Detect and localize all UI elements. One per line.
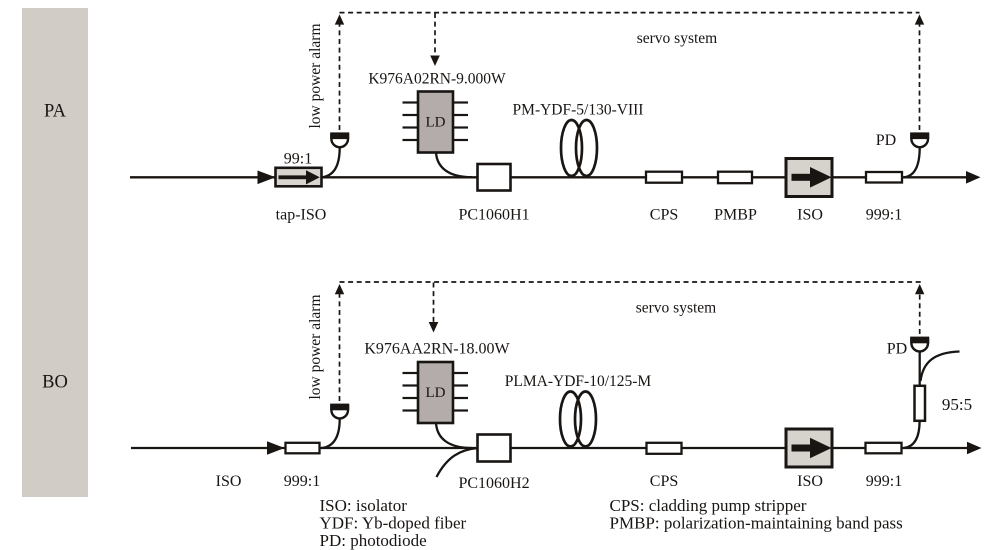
svg-text:99:1: 99:1 — [284, 151, 312, 168]
svg-text:LD: LD — [426, 385, 446, 401]
svg-text:ISO: isolator: ISO: isolator — [320, 496, 408, 515]
svg-text:PD: photodiode: PD: photodiode — [320, 531, 427, 550]
svg-text:tap-ISO: tap-ISO — [276, 207, 327, 224]
svg-text:ISO: ISO — [797, 473, 823, 490]
svg-text:999:1: 999:1 — [866, 207, 902, 224]
svg-text:PD: PD — [887, 341, 907, 358]
svg-text:PM-YDF-5/130-VIII: PM-YDF-5/130-VIII — [513, 102, 644, 119]
svg-text:95:5: 95:5 — [942, 395, 972, 414]
svg-text:low power alarm: low power alarm — [307, 23, 324, 128]
svg-text:CPS: cladding pump stripper: CPS: cladding pump stripper — [610, 496, 807, 515]
svg-text:YDF: Yb-doped fiber: YDF: Yb-doped fiber — [320, 514, 467, 533]
svg-text:PMBP: PMBP — [714, 207, 757, 224]
svg-text:PMBP: polarization-maintaining: PMBP: polarization-maintaining band pass — [610, 514, 903, 533]
svg-text:PC1060H2: PC1060H2 — [458, 475, 529, 492]
svg-text:K976A02RN-9.000W: K976A02RN-9.000W — [368, 71, 506, 88]
svg-text:999:1: 999:1 — [284, 473, 320, 490]
svg-text:CPS: CPS — [650, 207, 678, 224]
svg-text:servo system: servo system — [637, 30, 718, 47]
svg-text:low power alarm: low power alarm — [307, 294, 324, 399]
svg-text:K976AA2RN-18.00W: K976AA2RN-18.00W — [364, 341, 510, 358]
svg-text:CPS: CPS — [650, 473, 678, 490]
svg-text:PC1060H1: PC1060H1 — [458, 207, 529, 224]
svg-text:PD: PD — [876, 132, 896, 149]
svg-text:PA: PA — [44, 102, 67, 122]
svg-text:BO: BO — [42, 373, 68, 393]
svg-text:servo system: servo system — [636, 300, 717, 317]
svg-text:ISO: ISO — [216, 473, 242, 490]
svg-text:ISO: ISO — [797, 207, 823, 224]
svg-text:999:1: 999:1 — [866, 473, 902, 490]
svg-text:LD: LD — [426, 115, 446, 131]
svg-text:PLMA-YDF-10/125-M: PLMA-YDF-10/125-M — [505, 373, 652, 390]
